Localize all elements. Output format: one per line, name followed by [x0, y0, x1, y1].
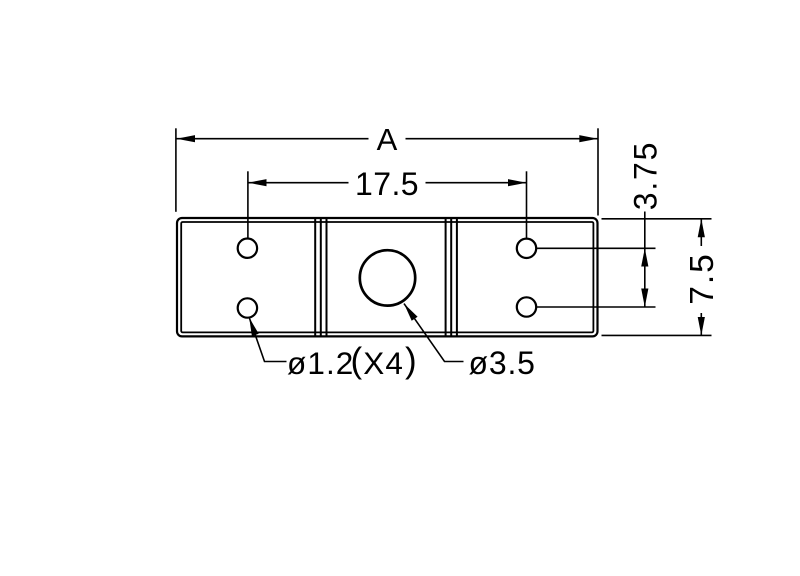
- dimension 17.5 extension line left: [247, 171, 249, 238]
- dimension A arrow left: [177, 135, 196, 142]
- svg-text:3.75: 3.75: [628, 141, 664, 210]
- hole leader line top-right: [536, 247, 655, 249]
- dimension 17.5 line left segment: [248, 182, 349, 184]
- dimension 3.75 line vertical: [644, 212, 646, 308]
- dimension 7.5 line bottom segment: [700, 313, 702, 335]
- svg-text:17.5: 17.5: [355, 166, 419, 202]
- dimension 7.5 line top segment: [700, 219, 702, 246]
- dimension 7.5 extension line bottom: [602, 334, 712, 336]
- leader arrow for center hole: [404, 304, 418, 321]
- part outline inner rectangle: [181, 222, 593, 332]
- dimension 17.5 line right segment: [426, 182, 527, 184]
- leader line for center hole: [404, 304, 464, 362]
- hole bottom-left: [238, 298, 257, 317]
- dimension A extension line left: [175, 128, 177, 212]
- leader line for small holes: [249, 318, 286, 362]
- dimension A extension line right: [597, 128, 599, 215]
- dimension A line left segment: [177, 138, 369, 140]
- big center hole: [360, 250, 415, 305]
- leader arrow for small holes: [249, 318, 259, 337]
- svg-text:A: A: [377, 122, 398, 157]
- dimension 17.5 arrow left: [248, 179, 267, 186]
- dimension 17.5 extension line right: [526, 171, 528, 238]
- hole bottom-right: [517, 297, 536, 316]
- dimension 3.75 arrow down: [641, 289, 648, 308]
- hole leader line bottom-right: [536, 306, 655, 308]
- dimension 17.5 arrow right: [508, 179, 527, 186]
- part outline outer rectangle: [177, 218, 598, 336]
- dimension A line right segment: [406, 138, 598, 140]
- svg-text:ø3.5: ø3.5: [469, 345, 536, 381]
- dimension 7.5 arrow down: [698, 317, 705, 335]
- dimension A arrow right: [579, 135, 598, 142]
- left divider triple lines: [315, 219, 326, 336]
- dimension 7.5 extension line top: [602, 218, 712, 220]
- dimension 3.75 arrow up: [641, 248, 648, 266]
- hole top-left: [238, 239, 257, 258]
- hole top-right: [517, 239, 536, 258]
- svg-text:7.5: 7.5: [684, 252, 721, 305]
- svg-text:ø1.2(X4): ø1.2(X4): [287, 341, 418, 381]
- right divider triple lines: [446, 219, 457, 336]
- dimension 7.5 arrow up: [698, 219, 705, 238]
